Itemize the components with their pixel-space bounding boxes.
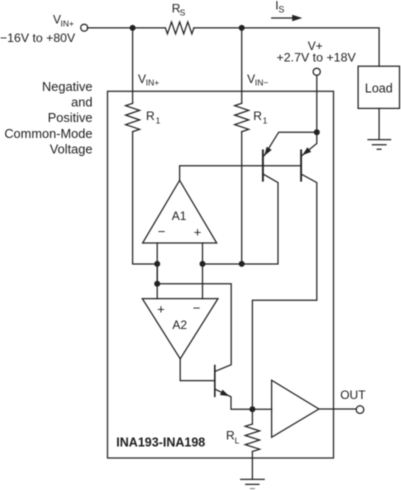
transistor Q3 emitter arrow <box>220 390 229 397</box>
wire RL top <box>251 409 253 424</box>
ground (load) <box>368 140 391 150</box>
label R1 right <box>253 109 267 126</box>
node A2 plus input <box>154 281 160 287</box>
transistor Q2 emitter arrow <box>302 147 311 155</box>
transistor Q3 emitter <box>216 389 253 409</box>
svg-text:Positive: Positive <box>48 110 93 125</box>
label IS <box>275 0 284 15</box>
wire RL to ground <box>251 452 253 479</box>
resistor R1 right <box>235 103 249 131</box>
label common-mode note <box>4 79 92 156</box>
op-amp A2 <box>142 299 218 359</box>
node A1 noninverting input <box>200 261 206 267</box>
wire R1 right to node <box>241 132 243 264</box>
svg-text:−: − <box>193 301 201 316</box>
svg-text:A1: A1 <box>172 209 187 223</box>
svg-text:R: R <box>253 109 262 123</box>
wire top from VIN+ terminal to RS <box>87 27 165 29</box>
resistor RL <box>245 424 259 451</box>
svg-text:1: 1 <box>156 116 161 126</box>
wire buffer input <box>252 408 271 410</box>
wire A2 output to Q3 base <box>180 359 214 381</box>
wire A1 inverting input stub <box>156 243 158 284</box>
wire load to ground <box>378 108 380 139</box>
svg-text:−: − <box>158 224 166 239</box>
label VIN+ (pin) <box>138 72 159 88</box>
svg-text:IN−: IN− <box>255 78 269 88</box>
svg-text:S: S <box>180 8 186 18</box>
op-amp A1 <box>143 180 217 243</box>
transistor Q1 emitter <box>264 132 317 155</box>
node A1 inverting input <box>154 261 160 267</box>
label VIN+ (top) <box>53 13 74 29</box>
label R1 left <box>146 109 161 126</box>
svg-text:L: L <box>235 435 240 445</box>
transistor Q2 emitter <box>302 132 317 155</box>
resistor RS <box>165 22 194 34</box>
buffer U1 <box>272 380 319 437</box>
wire R1 left to A1 inverting input <box>133 132 158 264</box>
svg-text:1: 1 <box>263 116 268 126</box>
current arrow IS <box>272 17 293 19</box>
load box <box>358 66 399 108</box>
wire A2 plus feedback link <box>157 264 231 371</box>
wire A1 noninverting input stub <box>202 243 204 299</box>
transistor Q3 bar <box>214 366 216 397</box>
svg-text:IN+: IN+ <box>61 18 75 28</box>
wire VIN+ pin drop <box>132 28 134 103</box>
svg-text:OUT: OUT <box>340 388 366 402</box>
wire top from RS to load corner <box>194 28 379 66</box>
wire buffer output to OUT <box>319 408 356 410</box>
svg-text:Load: Load <box>365 81 393 95</box>
wire A1 output to mirror bases <box>180 166 302 181</box>
svg-text:R: R <box>146 109 155 123</box>
transistor Q1 emitter arrow <box>264 147 271 156</box>
svg-text:S: S <box>278 5 284 15</box>
IC box INA193-INA198 <box>108 91 334 458</box>
wire VIN- pin drop <box>241 28 243 103</box>
terminal OUT <box>356 406 364 414</box>
terminal VIN+ <box>81 24 88 31</box>
svg-text:Common-Mode: Common-Mode <box>4 126 92 141</box>
label VIN- (pin) <box>247 72 268 88</box>
svg-text:INA193-INA198: INA193-INA198 <box>116 436 205 450</box>
transistor Q2 bar <box>300 150 302 180</box>
wire V+ supply drop <box>316 75 318 132</box>
wire node to Q1 collector riser <box>203 174 279 264</box>
svg-text:+2.7V to +18V: +2.7V to +18V <box>277 50 357 64</box>
node junction at VIN+ sense tap <box>130 25 136 31</box>
svg-text:−16V to +80V: −16V to +80V <box>0 31 76 45</box>
wire A2 plus input stub <box>156 284 158 299</box>
svg-text:Negative: Negative <box>42 79 93 94</box>
svg-text:A2: A2 <box>172 318 187 332</box>
svg-text:Voltage: Voltage <box>50 142 93 157</box>
terminal V+ <box>313 68 320 75</box>
resistor R1 left <box>126 103 140 131</box>
node V+ emitter junction <box>314 129 320 135</box>
svg-text:+: + <box>157 302 165 317</box>
node junction at VIN- sense tap <box>239 25 245 31</box>
label RS <box>172 1 186 17</box>
svg-text:and: and <box>71 94 92 109</box>
wire Q2 collector to RL node <box>252 174 316 409</box>
label RL <box>226 429 240 446</box>
svg-text:+: + <box>194 224 202 239</box>
node output summing junction <box>249 406 255 412</box>
node R1 right junction <box>239 261 245 267</box>
transistor Q1 bar <box>262 150 264 180</box>
ground (RL) <box>241 479 265 484</box>
svg-text:IN+: IN+ <box>146 78 160 88</box>
